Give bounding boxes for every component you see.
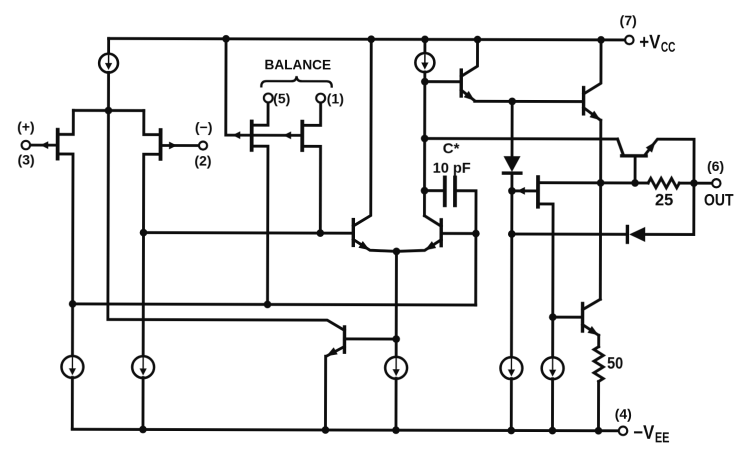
svg-text:(3): (3) bbox=[18, 152, 35, 168]
wire Q7 base lead bbox=[553, 316, 583, 319]
arrow J5 gate (p-channel) bbox=[517, 187, 525, 195]
wire J3 bottom lead bbox=[251, 146, 268, 304]
node J1 drain junction bbox=[69, 300, 77, 308]
wire balance gate feed bbox=[226, 39, 252, 135]
node Q4 base junction bbox=[472, 230, 480, 238]
wire R1 to OUT bbox=[679, 182, 712, 185]
jfet J2 gate bar bbox=[159, 130, 163, 159]
wire Q4 emitter bbox=[396, 240, 441, 252]
wire I3 stem bbox=[71, 304, 74, 357]
node Q5 base junction bbox=[392, 335, 400, 343]
jfet J1 gate bar bbox=[56, 130, 60, 159]
terminal (6) OUT bbox=[712, 179, 720, 187]
transistor Q2 base bar bbox=[582, 88, 585, 114]
wire D1 chain bottom bbox=[510, 173, 513, 358]
wire Q1 base lead bbox=[425, 80, 461, 83]
node Q7 base junction bbox=[549, 313, 557, 321]
wire Q7 emitter to R2 bbox=[597, 335, 600, 346]
arrow Q1 emitter bbox=[464, 91, 475, 101]
resistor R1 25 bbox=[648, 178, 679, 187]
wire Q2 emitter bbox=[584, 108, 601, 121]
wire Q3 emitter bbox=[353, 239, 396, 251]
node OUT junction bbox=[690, 179, 698, 187]
node J3 drain junction bbox=[264, 301, 272, 309]
wire I7 to rail bbox=[551, 379, 554, 431]
node Q2 emitter out-line junction bbox=[597, 179, 605, 187]
svg-text:10 pF: 10 pF bbox=[433, 160, 471, 177]
diode D1 bbox=[503, 156, 520, 173]
wire Q7 collector bbox=[583, 299, 601, 309]
wire I3 to rail bbox=[71, 377, 74, 429]
node bottom rail I6 bbox=[507, 427, 515, 435]
wire Q7 emitter bbox=[583, 325, 599, 336]
node bottom rail Q5 emitter bbox=[322, 426, 330, 434]
terminal (3) noninverting input bbox=[22, 141, 30, 149]
wire J3 top lead to pin 5 bbox=[252, 103, 268, 126]
transistor Q4 base bar bbox=[439, 220, 442, 246]
wire Q1 collector bbox=[461, 39, 477, 76]
wire I5 to rail bbox=[395, 378, 398, 430]
arrow Q2 emitter bbox=[590, 111, 601, 121]
svg-text:(−): (−) bbox=[195, 119, 213, 135]
wire Q6 collector bbox=[618, 139, 624, 154]
jfet J5 gate bar bbox=[536, 177, 540, 207]
wire Q5 emitter bbox=[326, 346, 344, 356]
wire Q2 emitter long drop bbox=[599, 120, 602, 299]
svg-text:C*: C* bbox=[443, 140, 460, 157]
wire I2 main vertical bbox=[423, 72, 426, 216]
capacitor C1 right plate bbox=[453, 177, 457, 205]
arrow Q6 emitter bbox=[646, 142, 656, 153]
svg-text:EE: EE bbox=[655, 430, 670, 446]
transistor Q7 base bar bbox=[581, 304, 584, 331]
wire J2 gate lead bbox=[161, 144, 199, 147]
wire Q5 base lead bbox=[345, 337, 397, 340]
diode D2 bbox=[627, 226, 645, 242]
wire I4 to rail bbox=[142, 378, 145, 430]
transistor Q5 base bar bbox=[343, 327, 346, 352]
node Q1 base tap bbox=[421, 78, 429, 86]
terminal (5) balance bbox=[264, 94, 273, 103]
node top rail I2 tap bbox=[421, 36, 429, 44]
terminal (4) -VEE bbox=[619, 427, 627, 435]
node compensation tap bbox=[421, 135, 429, 143]
svg-text:50: 50 bbox=[607, 355, 623, 373]
wire J5 bottom lead bbox=[538, 204, 553, 317]
wire Q1 emitter to Q2 base bbox=[475, 100, 584, 103]
wire C1 node drop bbox=[474, 234, 477, 305]
terminal (1) balance bbox=[316, 94, 325, 103]
svg-text:OUT: OUT bbox=[704, 191, 734, 209]
wire I6 to rail bbox=[510, 379, 513, 431]
arrow J3 gate (p-channel) bbox=[232, 131, 240, 139]
node bottom rail I4 bbox=[139, 426, 147, 434]
node common emitters bbox=[393, 248, 401, 256]
node top rail balance tap bbox=[222, 35, 230, 43]
wire common emitter drop bbox=[395, 251, 398, 339]
current source I2 bbox=[415, 53, 434, 72]
svg-text:(4): (4) bbox=[615, 406, 632, 422]
wire input JFET sources rail bbox=[73, 109, 143, 112]
wire J1 gate lead bbox=[30, 144, 58, 147]
wire R2 to rail bbox=[597, 381, 600, 430]
svg-text:(2): (2) bbox=[194, 152, 211, 168]
arrow Q7 emitter bbox=[588, 326, 599, 335]
brace balance pins bbox=[261, 76, 331, 87]
arrow Q5 emitter bbox=[326, 347, 337, 356]
current source I4 bbox=[132, 356, 154, 378]
node bottom rail I5 bbox=[392, 426, 400, 434]
terminal (2) inverting input bbox=[199, 142, 207, 150]
wire J5 top lead (out node) bbox=[538, 181, 648, 184]
node input tail junction bbox=[105, 107, 113, 115]
wire Q6 emitter bbox=[645, 139, 694, 183]
wire top +VCC rail bbox=[109, 39, 625, 40]
current source I5 bbox=[385, 357, 407, 379]
arrow J4 gate (p-channel) bbox=[283, 131, 291, 139]
arrow Q4 emitter bbox=[425, 241, 436, 250]
wire J1 drain lead bbox=[57, 154, 73, 304]
jfet J3 gate bar bbox=[250, 122, 254, 150]
node J2 drain junction bbox=[140, 229, 148, 237]
wire J2 source lead bbox=[144, 111, 161, 135]
transistor Q3 base bar bbox=[352, 220, 355, 246]
node top rail Q2 collector bbox=[597, 36, 605, 44]
current source I1 bbox=[99, 54, 118, 73]
arrow Q3 emitter bbox=[358, 241, 369, 250]
svg-text:(5): (5) bbox=[273, 90, 290, 106]
wire Q4 base lead bbox=[441, 232, 476, 235]
wire first stage node line bbox=[144, 231, 354, 234]
wire J1 source lead bbox=[58, 110, 74, 134]
wire C1 left lead bbox=[425, 189, 445, 192]
capacitor C1 left plate bbox=[443, 177, 447, 205]
wire bottom -VEE rail bbox=[72, 429, 619, 431]
transistor Q6 base bar bbox=[622, 154, 646, 157]
wire C1 right lead bbox=[455, 191, 476, 234]
current source I7 bbox=[542, 357, 564, 379]
wire Q5 emitter drop bbox=[324, 356, 327, 430]
wire I5 stem bbox=[395, 339, 398, 357]
terminal (7) +VCC bbox=[625, 36, 633, 44]
wire Q1 emitter bbox=[461, 90, 475, 101]
node C1 left plate tap bbox=[421, 187, 429, 195]
wire J5 gate lead bbox=[512, 189, 538, 192]
wire I1 stem bottom bbox=[107, 72, 110, 110]
wire I4 stem bbox=[142, 233, 145, 357]
wire J4 bottom lead bbox=[302, 146, 321, 233]
svg-text:−V: −V bbox=[633, 423, 654, 444]
transistor Q1 base bar bbox=[459, 70, 462, 96]
wire J2 drain lead bbox=[144, 154, 161, 232]
node top rail Q1 collector bbox=[474, 36, 482, 44]
svg-text:(+): (+) bbox=[17, 119, 35, 135]
wire D2 row left bbox=[512, 233, 626, 236]
wire Q4 collector bbox=[424, 216, 441, 227]
wire I2 stem top bbox=[423, 39, 426, 53]
svg-text:CC: CC bbox=[661, 40, 676, 56]
resistor R2 50 bbox=[594, 347, 603, 382]
wire Q2 collector bbox=[584, 40, 601, 94]
node bottom rail R2 bbox=[595, 427, 603, 435]
node top rail Q3 collector bbox=[367, 35, 375, 43]
svg-text:(1): (1) bbox=[327, 90, 344, 106]
wire I7 stem bbox=[551, 317, 554, 358]
wire I1 stem top bbox=[107, 39, 110, 54]
wire J4 top lead to pin 1 bbox=[302, 103, 320, 126]
wire Q6 base lead bbox=[634, 156, 637, 183]
wire input tail to Q5 collector bbox=[108, 111, 345, 331]
node D1 top tap bbox=[508, 98, 516, 106]
wire Q3 collector bbox=[353, 39, 371, 226]
wire D1 chain top bbox=[511, 101, 514, 157]
wire second node line bbox=[73, 304, 476, 305]
wire balance gate link bbox=[252, 134, 303, 137]
svg-text:(6): (6) bbox=[707, 158, 724, 174]
svg-text:25: 25 bbox=[655, 191, 673, 209]
svg-text:BALANCE: BALANCE bbox=[264, 56, 331, 72]
current source I3 bbox=[62, 356, 84, 378]
arrow J1 gate (p-channel) bbox=[40, 141, 48, 149]
node Q6 base junction bbox=[631, 179, 639, 187]
node bottom rail I7 bbox=[549, 427, 557, 435]
current source I6 bbox=[500, 357, 522, 379]
node J4 drain junction bbox=[316, 229, 324, 237]
svg-text:(7): (7) bbox=[620, 12, 637, 28]
node D2 line tap bbox=[508, 230, 516, 238]
node D1 bottom J5 gate bbox=[508, 187, 516, 195]
wire compensation line bbox=[425, 138, 623, 154]
wire D2 row right bbox=[644, 183, 694, 235]
svg-text:+V: +V bbox=[639, 32, 660, 53]
jfet J4 gate bar bbox=[300, 122, 304, 150]
arrow J2 gate (p-channel) bbox=[169, 142, 177, 150]
